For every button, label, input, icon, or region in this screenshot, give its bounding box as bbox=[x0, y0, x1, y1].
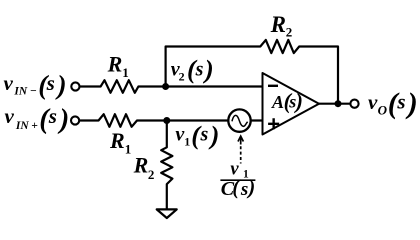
svg-text:2: 2 bbox=[148, 167, 155, 182]
svg-text:): ) bbox=[203, 54, 214, 84]
svg-text:s: s bbox=[195, 59, 204, 81]
svg-text:R: R bbox=[133, 153, 149, 178]
svg-text:s: s bbox=[396, 89, 405, 113]
svg-text:): ) bbox=[294, 88, 303, 113]
svg-text:): ) bbox=[57, 104, 70, 135]
svg-text:s: s bbox=[46, 71, 55, 95]
svg-text:s: s bbox=[240, 179, 248, 200]
svg-text:v: v bbox=[368, 90, 378, 114]
svg-text:2: 2 bbox=[286, 24, 293, 39]
svg-text:IN: IN bbox=[15, 120, 29, 132]
svg-text:O: O bbox=[378, 102, 388, 117]
svg-text:v: v bbox=[5, 104, 15, 128]
svg-text:2: 2 bbox=[179, 70, 185, 84]
svg-text:A: A bbox=[271, 92, 284, 112]
svg-text:R: R bbox=[107, 51, 123, 76]
svg-text:+: + bbox=[31, 120, 38, 132]
svg-text:): ) bbox=[405, 87, 418, 120]
svg-text:): ) bbox=[246, 175, 255, 199]
svg-text:s: s bbox=[48, 104, 57, 128]
svg-text:1: 1 bbox=[184, 135, 190, 149]
svg-text:v: v bbox=[4, 71, 14, 95]
svg-text:): ) bbox=[54, 69, 66, 100]
svg-text:R: R bbox=[270, 12, 286, 37]
svg-text:IN: IN bbox=[13, 86, 27, 98]
svg-text:s: s bbox=[200, 124, 209, 146]
svg-text:1: 1 bbox=[125, 142, 132, 157]
svg-text:1: 1 bbox=[122, 65, 129, 80]
svg-text:R: R bbox=[109, 128, 125, 153]
svg-text:−: − bbox=[30, 86, 37, 98]
svg-text:): ) bbox=[209, 120, 220, 150]
